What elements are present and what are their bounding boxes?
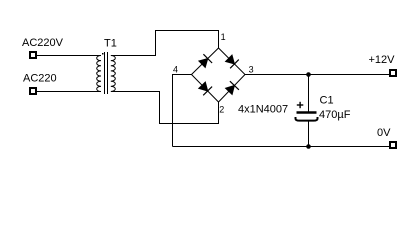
diode D4 (node 2 to node 3) bbox=[226, 81, 239, 94]
svg-text:4x1N4007: 4x1N4007 bbox=[238, 104, 288, 116]
transformer T1 primary winding bbox=[97, 56, 101, 92]
transformer T1 secondary winding bbox=[111, 56, 116, 92]
wire 0V bottom rail bbox=[173, 146, 391, 148]
capacitor C1 negative plate (curved) bbox=[296, 117, 318, 121]
wire C1 bottom lead bbox=[308, 122, 310, 147]
wire node 4 to 0V rail bbox=[173, 75, 192, 147]
diode D2 (node 1 to node 3) bbox=[226, 55, 239, 68]
svg-text:+12V: +12V bbox=[369, 54, 396, 66]
svg-text:T1: T1 bbox=[104, 38, 117, 50]
junction dot top rail / C1 bbox=[306, 72, 311, 77]
wire secondary bottom to bridge node 2 bbox=[111, 92, 219, 124]
capacitor C1 positive plate bbox=[297, 111, 317, 114]
wire secondary top to bridge node 1 bbox=[111, 31, 219, 56]
polarity + sign for C1 bbox=[297, 102, 304, 108]
wire primary top bbox=[37, 55, 101, 57]
svg-text:470µF: 470µF bbox=[319, 109, 351, 121]
wire primary bottom bbox=[37, 91, 101, 93]
terminal AC220 (input square) bbox=[30, 88, 36, 94]
svg-text:C1: C1 bbox=[320, 95, 334, 107]
terminal AC220V (input square) bbox=[30, 52, 36, 58]
svg-text:AC220V: AC220V bbox=[22, 37, 64, 49]
transformer T1 polarity dot bbox=[102, 53, 104, 55]
junction dot bottom rail / C1 bbox=[306, 144, 311, 149]
wire +12V top rail bbox=[245, 74, 390, 76]
svg-text:1: 1 bbox=[221, 32, 226, 42]
svg-text:AC220: AC220 bbox=[23, 73, 57, 85]
svg-text:0V: 0V bbox=[377, 127, 391, 139]
svg-text:4: 4 bbox=[173, 64, 178, 74]
terminal 0V (output square) bbox=[390, 142, 396, 148]
svg-text:3: 3 bbox=[249, 65, 254, 75]
svg-text:2: 2 bbox=[219, 105, 224, 115]
wire C1 top lead bbox=[308, 75, 310, 113]
diode D3 (node 4 to node 2) bbox=[199, 82, 212, 95]
bridge rectifier diamond wires bbox=[192, 48, 246, 102]
transformer T1 core bbox=[105, 52, 108, 94]
diode D1 (node 4 to node 1) bbox=[199, 54, 212, 67]
terminal +12V (output square) bbox=[390, 70, 396, 76]
